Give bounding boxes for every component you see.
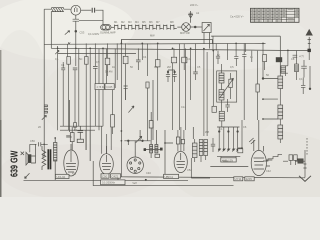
band switch S1 — [202, 23, 211, 33]
svg-text:0,1: 0,1 — [55, 57, 59, 61]
tube V3 pins — [130, 159, 141, 172]
bottom rail lower — [93, 185, 233, 187]
wire v mid — [152, 80, 154, 140]
bus junction marks — [58, 42, 71, 48]
bottom rail left — [24, 179, 189, 181]
resistor R4 — [123, 43, 128, 100]
resistor R15 — [192, 127, 194, 139]
svg-text:C53: C53 — [80, 31, 85, 35]
wire top left feed — [44, 9, 71, 45]
svg-text:M6: M6 — [149, 20, 153, 24]
wire v22 — [238, 120, 242, 148]
svg-text:MW: MW — [150, 34, 155, 38]
wire v25 — [263, 43, 280, 78]
svg-text:0,5: 0,5 — [96, 60, 100, 64]
svg-text:5C: 5C — [79, 57, 82, 61]
bus HT rail — [211, 35, 280, 37]
resistor R9 — [192, 139, 197, 162]
switch contact row — [217, 127, 240, 152]
trimmer arrow near C53 — [65, 31, 70, 35]
dark node right — [160, 148, 163, 151]
antenna symbol — [306, 30, 312, 44]
svg-text:220V: 220V — [246, 177, 253, 181]
wire links to windings — [263, 99, 278, 119]
tube V2 feed wires — [102, 126, 112, 154]
svg-text:C42: C42 — [266, 169, 271, 173]
resistor R11 — [256, 51, 259, 120]
svg-text:639 GW: 639 GW — [10, 150, 21, 177]
svg-text:1M: 1M — [112, 65, 116, 69]
wire v19 — [215, 43, 217, 50]
svg-text:0,045: 0,045 — [106, 86, 113, 89]
wire v9 — [142, 43, 147, 76]
coil L3 — [281, 66, 286, 73]
tube V2 label boxes — [101, 174, 121, 178]
svg-text:5A 4M: 5A 4M — [105, 70, 112, 74]
bottom rail mid — [118, 177, 305, 178]
lamp V0 circle — [71, 5, 81, 15]
capacitor C6c — [225, 99, 229, 112]
transformer windings chain — [278, 76, 283, 143]
bus D partial — [58, 53, 136, 55]
wire staircase — [263, 154, 282, 161]
tube V3 socket circle — [127, 157, 143, 173]
svg-text:Ca.=220 V~: Ca.=220 V~ — [230, 15, 244, 19]
table text smudge — [251, 9, 298, 21]
svg-text:0,1: 0,1 — [219, 127, 223, 131]
antenna coil on left wire — [44, 105, 47, 113]
wire v4 — [93, 43, 98, 126]
svg-text:C1: C1 — [61, 63, 65, 67]
wire v7 — [115, 43, 117, 88]
wire wheel to switch — [190, 26, 202, 28]
secondary winding — [54, 138, 57, 180]
capacitor C8 — [293, 55, 298, 57]
resistor R8 box — [182, 43, 187, 70]
wire v17 — [206, 52, 208, 136]
svg-text:0,1=220V: 0,1=220V — [88, 32, 99, 36]
tiny box on v2 — [74, 123, 77, 128]
capacitor C6b — [216, 51, 220, 64]
resistor boxes above tube V4 — [176, 137, 184, 144]
wire T1 top — [221, 64, 223, 111]
svg-text:0,5: 0,5 — [230, 65, 234, 69]
dial lamp assembly — [101, 25, 111, 30]
tap arrow on left wire — [42, 115, 47, 119]
svg-text:4,78 9W: 4,78 9W — [97, 86, 107, 89]
tube V1 label box — [55, 174, 69, 178]
wire v12 tube4 feeds — [178, 43, 184, 151]
svg-text:C4Z1: C4Z1 — [112, 174, 119, 178]
wire v23 — [244, 43, 246, 52]
junction node — [194, 26, 196, 28]
capacitor pair mid — [166, 70, 177, 82]
svg-text:C52: C52 — [187, 168, 192, 172]
bottom section — [21, 80, 305, 186]
wire lamp to connector — [81, 9, 92, 11]
small coil L4 — [295, 64, 299, 80]
capacitor C2 — [61, 62, 65, 126]
wire v2b — [75, 48, 79, 130]
volume pot — [111, 90, 115, 134]
svg-text:W8: W8 — [205, 130, 209, 134]
wire misc bottom — [210, 165, 248, 167]
bus B — [51, 48, 309, 50]
wire drop — [93, 161, 118, 186]
page edge shadow — [0, 50, 2, 197]
label box pair — [95, 84, 114, 90]
small box label 24 — [238, 149, 243, 153]
svg-text:220 V~: 220 V~ — [190, 3, 199, 7]
capacitor C53 under lamp — [73, 15, 79, 48]
wire connector right then down — [95, 10, 103, 25]
wire v11 — [172, 63, 174, 130]
tube V4 label box — [164, 174, 179, 178]
bus C partial — [122, 39, 213, 43]
svg-text:C8: C8 — [291, 57, 295, 61]
wire v8 long to bottom — [120, 39, 122, 176]
main vertical wires middle — [55, 36, 311, 181]
tube V2 electrodes — [102, 146, 111, 170]
antenna terminal — [308, 49, 311, 52]
junction node — [75, 30, 77, 32]
speaker wires — [31, 144, 36, 163]
resistor R2 — [85, 43, 89, 150]
wires switch down to buses — [204, 33, 210, 49]
wire v21 — [235, 43, 237, 56]
wire v27 — [296, 51, 298, 64]
wire v2 — [75, 48, 77, 66]
svg-text:M1: M1 — [114, 20, 118, 24]
wire above V3 — [124, 130, 150, 157]
mains plug arrow — [25, 173, 30, 178]
svg-text:Veff: Veff — [132, 182, 137, 185]
wire far right — [309, 66, 311, 90]
diode D1 above wheel — [189, 11, 193, 23]
IF transformer T1 can — [217, 71, 237, 102]
bus A — [44, 42, 265, 45]
variable arrow over V3 — [136, 136, 142, 142]
wire v28 antenna down — [308, 52, 310, 60]
component C9 — [295, 159, 305, 163]
svg-text:5000: 5000 — [222, 159, 228, 163]
svg-text:C6: C6 — [243, 125, 247, 129]
wire cap to chain — [79, 19, 103, 21]
resistor R12 — [263, 55, 267, 70]
wire v1 — [57, 48, 59, 130]
box on v9 — [146, 82, 149, 141]
svg-text:C40: C40 — [146, 171, 151, 175]
svg-text:411: 411 — [72, 172, 77, 176]
tube V2 envelope — [100, 154, 114, 175]
tube V4 electrodes — [177, 153, 185, 168]
pot arrow — [55, 50, 59, 54]
dark component K2 — [276, 57, 282, 62]
tube V4 envelope — [174, 151, 187, 172]
label box mid — [101, 180, 125, 185]
resistor R3 — [105, 43, 110, 76]
dashed lead — [306, 138, 308, 156]
svg-text:2M: 2M — [167, 65, 171, 69]
coupling capacitor C56 — [30, 142, 48, 152]
svg-text:M4: M4 — [135, 20, 139, 24]
small boxes right bottom — [283, 155, 297, 165]
capacitor C5 — [193, 70, 198, 80]
resistor R6 — [155, 43, 160, 120]
svg-text:C50: C50 — [102, 174, 108, 178]
wire v26 right area — [283, 51, 288, 76]
wire v15 — [195, 43, 197, 70]
svg-text:UY11: UY11 — [235, 177, 242, 181]
wires above V1 — [69, 100, 90, 161]
resistor R14 above — [149, 112, 153, 141]
svg-text:0,1-2000Hz: 0,1-2000Hz — [102, 182, 116, 185]
wire v5 connections — [266, 160, 272, 166]
pickup cross — [21, 152, 24, 155]
capacitor C22 — [242, 43, 246, 120]
svg-text:UBF11: UBF11 — [165, 175, 174, 179]
wave band bar — [217, 156, 240, 158]
tiny labels — [30, 3, 304, 185]
capacitor C23 — [301, 78, 305, 95]
svg-text:A2: A2 — [196, 11, 200, 15]
connector J1 — [92, 8, 94, 13]
svg-text:UCH11: UCH11 — [57, 175, 66, 179]
capacitor C6 — [211, 138, 215, 152]
voltage table — [251, 8, 300, 22]
mains arrow E1 — [299, 150, 311, 181]
capacitor C4 — [136, 48, 141, 70]
drive wheel — [182, 23, 191, 32]
wire v13 — [184, 48, 186, 130]
IF transformer T2 — [199, 140, 207, 163]
left outer wire down — [43, 45, 45, 151]
wave switch label box — [221, 158, 236, 162]
component above tube V1 — [66, 126, 83, 150]
svg-text:C4: C4 — [143, 55, 147, 59]
trimmer chain row — [111, 25, 182, 30]
lamp electrodes — [75, 7, 77, 13]
link bar — [144, 149, 163, 151]
tube V5 electrodes — [254, 120, 265, 169]
resistor ladder A — [150, 141, 153, 158]
svg-text:M8: M8 — [170, 20, 174, 24]
svg-text:C14: C14 — [181, 105, 186, 109]
wire v18 — [212, 36, 214, 106]
svg-text:0,1: 0,1 — [154, 65, 158, 69]
svg-text:M2: M2 — [121, 20, 125, 24]
resistor ladder B — [155, 130, 158, 153]
wire horizontals mid-left — [60, 126, 103, 130]
svg-text:M5: M5 — [142, 20, 146, 24]
small box below — [155, 154, 160, 157]
wire right rail down — [279, 36, 281, 76]
svg-text:C56: C56 — [30, 139, 35, 143]
winding L5 — [219, 111, 224, 127]
output transformer T3 primary — [42, 146, 46, 170]
resistor R7 box — [171, 48, 176, 62]
label boxes under rail — [234, 177, 254, 181]
dark node left — [144, 148, 146, 151]
wire v20 — [227, 43, 229, 60]
svg-text:M7: M7 — [156, 20, 160, 24]
capacitor C7 — [249, 138, 255, 144]
wire v9b — [190, 48, 192, 100]
wire v3 — [89, 48, 91, 161]
wire left bottom — [42, 151, 44, 157]
variable arrow mid — [128, 106, 134, 113]
speaker LS1 — [26, 152, 31, 165]
tube V5 envelope — [251, 150, 266, 175]
wire coil to bus — [50, 12, 52, 49]
tick marks — [124, 86, 128, 100]
svg-text:C5: C5 — [197, 65, 201, 69]
transformer core — [48, 149, 50, 169]
component cluster right — [301, 60, 307, 78]
svg-text:0,1: 0,1 — [299, 77, 303, 81]
wire v5 long — [99, 48, 103, 130]
tube V1 envelope — [64, 150, 78, 176]
svg-text:0,1: 0,1 — [74, 128, 78, 132]
svg-text:GLIMMLAMP: GLIMMLAMP — [100, 31, 116, 35]
capacitor C3 — [73, 68, 78, 123]
tube V1 electrodes — [66, 144, 76, 172]
svg-text:0,1: 0,1 — [187, 57, 191, 61]
wire v16 — [203, 49, 205, 136]
svg-text:+(7): +(7) — [299, 54, 304, 58]
wire v24 — [251, 51, 253, 62]
antenna lead-in — [308, 37, 310, 51]
resistor R1 — [67, 44, 71, 130]
wire v6 — [106, 48, 108, 83]
svg-text:M3: M3 — [128, 20, 132, 24]
small box mid — [212, 106, 216, 112]
capacitor C21 — [234, 57, 238, 66]
wire tube V4 left — [165, 130, 173, 174]
svg-text:MOTOR: MOTOR — [180, 31, 190, 35]
coil L1 top — [51, 7, 64, 11]
wire v14 — [191, 158, 210, 178]
